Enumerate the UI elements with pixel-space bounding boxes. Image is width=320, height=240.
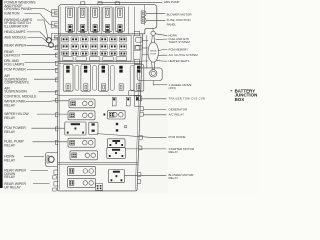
wire leader WIPER HI/LOW RELAY bbox=[37, 113, 68, 115]
svg-text:DEFROST: DEFROST bbox=[4, 53, 21, 57]
wire leader PARKING LAMPS bbox=[37, 20, 48, 38]
left edge tab 1 bbox=[55, 45, 58, 49]
left edge tab 4 bbox=[55, 68, 58, 72]
wire leader 4 WHEEL DRIVE bbox=[153, 84, 167, 86]
mini fuse row 2 #7 bbox=[119, 44, 126, 49]
mini fuse row 2 #6 bbox=[110, 44, 117, 49]
chain top terminal circle bbox=[151, 31, 155, 35]
svg-text:FUSE: FUSE bbox=[150, 53, 156, 55]
svg-text:PCM MEMORY: PCM MEMORY bbox=[169, 47, 189, 51]
label FUEL PUMP RELAY bbox=[4, 140, 24, 148]
mini fuse row 4 #4 bbox=[103, 57, 114, 61]
svg-text:BLOWER MOTOR: BLOWER MOTOR bbox=[167, 12, 193, 16]
svg-text:THEFT SYSTEM: THEFT SYSTEM bbox=[169, 40, 191, 44]
wire leader STARTER MOTOR RELAY bbox=[125, 148, 166, 150]
label WIPER PARK RELAY bbox=[4, 100, 26, 108]
stem band to chain circle bbox=[152, 28, 154, 31]
svg-text:PANEL: PANEL bbox=[167, 22, 177, 26]
small grid part bottom center bbox=[95, 184, 102, 191]
wire leader GENERATOR bbox=[144, 109, 167, 111]
small relay center column bbox=[89, 122, 98, 134]
label 4 WHEEL DRIVE bbox=[169, 83, 192, 90]
top band divider lines bbox=[127, 7, 129, 34]
left edge E-connector 3 bbox=[52, 34, 58, 40]
mini fuse row 1 #5 bbox=[100, 37, 107, 42]
connector tab to fuse junction panel bbox=[141, 18, 146, 24]
relay wiper hi/low bbox=[68, 111, 95, 120]
relay starter aux upper bbox=[108, 139, 126, 148]
label PCM POWER RELAY bbox=[4, 126, 26, 134]
label HEADLAMPS bbox=[4, 30, 26, 34]
wire leader PCM MEMORY bbox=[158, 50, 167, 51]
left edge tab 8 bbox=[55, 113, 58, 117]
mini fuse row 2 #1 bbox=[62, 44, 69, 49]
mini fuse row 4 #5 bbox=[116, 57, 127, 61]
svg-text:SUSPENSION: SUSPENSION bbox=[4, 90, 27, 94]
relay rear wiper down bbox=[68, 166, 96, 175]
svg-text:HEADLAMPS: HEADLAMPS bbox=[4, 30, 26, 34]
maxi fuse mid row M1 bbox=[63, 65, 73, 92]
left edge tab 3 bbox=[55, 61, 58, 65]
mini fuse row 3 #7 bbox=[119, 51, 126, 55]
svg-text:TRAILER TOW CVS CVR: TRAILER TOW CVS CVR bbox=[169, 97, 206, 101]
label BLOWER MOTOR RELAY bbox=[169, 173, 195, 180]
svg-text:GENERATOR: GENERATOR bbox=[169, 107, 189, 111]
relay starter aux bbox=[107, 148, 126, 159]
wire leader A/C CLUTCH SYSTEM bbox=[158, 54, 168, 56]
left connector ring C2 bbox=[49, 43, 54, 48]
wire leader FUSE JUNCTION PANEL bbox=[147, 19, 166, 21]
wire stud down bbox=[152, 81, 154, 86]
slot divider bbox=[88, 7, 90, 34]
mini fuse row 1 #2 bbox=[71, 37, 78, 42]
maxi fuse top row F3 bbox=[90, 7, 99, 33]
wire leader PCM POWER bbox=[27, 69, 58, 71]
svg-text:ABS MODULE: ABS MODULE bbox=[4, 36, 27, 40]
left edge tab 5 bbox=[55, 78, 58, 82]
scattered pins right bbox=[116, 123, 118, 125]
dark pin marks aux1 bbox=[104, 114, 106, 116]
relay horn bbox=[70, 151, 98, 160]
svg-text:PCM POWER: PCM POWER bbox=[4, 68, 26, 72]
left connector ring C1 bbox=[46, 38, 51, 43]
wire leader FUEL AND ANTI THEFT bbox=[156, 38, 168, 41]
mini fuse row 1 #3 bbox=[81, 37, 88, 42]
left edge tab 2 bbox=[55, 53, 58, 57]
relay wiper park bbox=[69, 99, 95, 108]
label AIR SUSPENSION CONTROL MODULE bbox=[4, 86, 27, 93]
maxi fuse mid row M2 bbox=[81, 65, 91, 92]
wire leader FUEL PUMP RELAY bbox=[33, 141, 68, 143]
svg-text:RELAY: RELAY bbox=[4, 175, 16, 179]
left edge tab 10 bbox=[55, 141, 58, 145]
maxi fuse top row F4 bbox=[103, 7, 112, 33]
label CONTROL MODULE bbox=[4, 95, 37, 99]
relay rear wiper up bbox=[68, 178, 96, 187]
svg-text:BOX: BOX bbox=[235, 97, 245, 102]
wire leader REAR DEFROST bbox=[22, 53, 58, 55]
mini fuse row 1 #6 bbox=[110, 37, 117, 42]
notch inner vertical line bbox=[144, 5, 146, 25]
battery stud outer bbox=[150, 70, 157, 77]
wire leader PCM POWER RELAY bbox=[32, 127, 65, 129]
svg-text:IGNITION: IGNITION bbox=[4, 12, 20, 16]
wire leader ABS PUMP bbox=[98, 1, 162, 3]
wire leader DRL AND FOG LAMPS bbox=[25, 62, 58, 64]
label WIPER HI/LOW RELAY bbox=[4, 112, 29, 120]
mini fuse row 4 #2 bbox=[76, 57, 87, 61]
wire leader REAR WIPER DOWN RELAY bbox=[31, 170, 49, 172]
svg-text:ILLUMINATION: ILLUMINATION bbox=[4, 24, 28, 28]
right edge connectors mid bbox=[129, 91, 135, 96]
maxi fuse mid row M5 bbox=[134, 65, 144, 92]
svg-text:HEATED SEATS: HEATED SEATS bbox=[169, 59, 190, 63]
wire leader AIR SUSPENSION COMPONENTS bbox=[34, 78, 58, 80]
label STARTER MOTOR RELAY bbox=[169, 147, 196, 154]
label REAR WIPER bbox=[4, 43, 26, 47]
mini fuse row 3 #3 bbox=[81, 51, 88, 55]
top edge tab 3 bbox=[115, 2, 119, 5]
left edge tab 6 bbox=[55, 91, 58, 95]
label FUSE JUNCTION PANEL bbox=[167, 18, 191, 26]
right interior connector rects bbox=[134, 31, 139, 35]
svg-text:UP RELAY: UP RELAY bbox=[4, 185, 21, 189]
scan edge black strip bbox=[0, 0, 3, 188]
mini fuse row 3 #1 bbox=[62, 51, 69, 55]
wire leader REAR WIPER UP RELAY bbox=[33, 183, 50, 185]
svg-text:RELAY: RELAY bbox=[4, 144, 16, 148]
narrow strip between mid fuses bbox=[93, 66, 97, 91]
wire leader HORN bbox=[155, 34, 167, 36]
wire leader ABS MODULE bbox=[28, 38, 50, 45]
wire leader BLOWER MOTOR RELAY bbox=[125, 174, 167, 176]
label BATTERY JUNCTION BOX (title) bbox=[235, 88, 258, 102]
wire leader POWER WINDOWS bbox=[31, 9, 58, 14]
lighter right margin bbox=[168, 0, 259, 194]
label PARKING LAMPS I/P AND SWITCH ILLUMINATION bbox=[4, 18, 33, 29]
svg-text:FOG LAMPS: FOG LAMPS bbox=[4, 62, 25, 66]
mini fuse row 4 #3 bbox=[89, 57, 100, 61]
svg-text:REAR WIPER: REAR WIPER bbox=[4, 43, 26, 47]
wire leader IGNITION bbox=[25, 14, 58, 26]
relay fuel pump bbox=[68, 138, 95, 147]
maxi fuse mid row M3 bbox=[99, 65, 109, 92]
svg-text:RELAY: RELAY bbox=[4, 116, 16, 120]
wire leader HEADLAMPS bbox=[27, 32, 48, 40]
svg-text:A/C CLUTCH SYSTEM: A/C CLUTCH SYSTEM bbox=[169, 53, 199, 57]
label FUEL AND ANTI THEFT SYSTEM bbox=[169, 37, 191, 44]
svg-text:PCM DIODE: PCM DIODE bbox=[169, 135, 186, 139]
connector tab to blower motor bbox=[141, 11, 146, 17]
connector bracket at rings bbox=[54, 37, 58, 49]
bottom left connector block bbox=[46, 153, 58, 167]
narrow strip between mid fuses bbox=[75, 66, 79, 91]
maxi fuse top row F2 bbox=[78, 7, 87, 33]
left edge E-connector 1 bbox=[52, 10, 58, 16]
mini fuse row 2 #2 bbox=[71, 44, 78, 49]
slot divider bbox=[75, 7, 77, 34]
narrow strip between mid fuses bbox=[110, 66, 114, 91]
svg-text:RELAY: RELAY bbox=[4, 103, 16, 107]
wire leader HEATED SEATS bbox=[156, 59, 167, 62]
label POWER WINDOWS AND ROOF OPENING PANEL bbox=[4, 1, 36, 12]
svg-text:RELAY: RELAY bbox=[169, 150, 179, 154]
maxi fuse top row F1 bbox=[65, 7, 74, 33]
svg-text:CONTROL MODULE: CONTROL MODULE bbox=[4, 95, 37, 99]
svg-text:ABS PUMP: ABS PUMP bbox=[164, 0, 180, 4]
maxi fuse mid row M4 bbox=[119, 66, 123, 91]
relay blower aux bbox=[109, 170, 125, 183]
left edge tab 9 bbox=[55, 127, 58, 131]
wire leader AIR SUSPENSION CONTROL MODULE bbox=[39, 91, 58, 93]
wire leader WIPER PARK RELAY bbox=[26, 100, 69, 103]
small parts right of wiper park relay bbox=[112, 97, 116, 106]
mini fuse row 2 #4 bbox=[90, 44, 97, 49]
wire mega fuse to terminal block bbox=[151, 62, 154, 70]
mini fuse row 3 #5 bbox=[100, 51, 107, 55]
label REAR DEFROST bbox=[4, 50, 21, 57]
mini fuse row 1 #1 bbox=[62, 37, 69, 42]
mini fuse row 4 #1 bbox=[63, 57, 74, 61]
dash before title bbox=[231, 90, 233, 91]
svg-text:RELAY: RELAY bbox=[4, 158, 16, 162]
label REAR WIPER DOWN RELAY bbox=[4, 168, 26, 179]
small fuse right column 2 bbox=[136, 45, 142, 50]
wire stubs box to chain bbox=[143, 40, 149, 42]
mini fuse row 2 #5 bbox=[100, 44, 107, 49]
label PCM POWER bbox=[4, 68, 26, 72]
slot divider bbox=[113, 7, 115, 34]
label IGNITION SWITCH bbox=[4, 12, 20, 16]
vertical wire along chain bbox=[146, 35, 148, 68]
bottom left small tab 4 bbox=[53, 188, 57, 191]
wire leader REAR WIPER bbox=[27, 46, 58, 47]
bottom left small tabs bbox=[54, 170, 58, 174]
relay aux 1 bbox=[108, 110, 126, 119]
panel right column dividers bbox=[133, 35, 135, 61]
svg-text:MEGA: MEGA bbox=[150, 49, 157, 52]
top edge tab 1 bbox=[81, 2, 85, 5]
left edge E-connector 2 bbox=[52, 22, 58, 28]
divider double line lower bbox=[58, 162, 138, 164]
mega fuse oval bbox=[148, 42, 158, 62]
battery terminal block bbox=[137, 68, 162, 81]
top edge tab 2 bbox=[98, 2, 102, 5]
narrow strip between mid fuses bbox=[130, 66, 134, 91]
wire circle to mega fuse bbox=[151, 36, 154, 43]
mini fuse row 3 #6 bbox=[110, 51, 117, 55]
label HORN RELAY bbox=[4, 155, 16, 163]
wire leader BLOWER MOTOR bbox=[147, 13, 166, 15]
wire leader HORN RELAY bbox=[24, 156, 44, 158]
divider under mini panel bbox=[58, 61, 142, 63]
wire leader A/C RELAY bbox=[143, 114, 166, 116]
mini fuse row 3 #4 bbox=[90, 51, 97, 55]
slot divider bbox=[100, 7, 102, 34]
svg-text:RELAY: RELAY bbox=[4, 130, 16, 134]
mini fuse panel border bbox=[60, 35, 132, 61]
maxi fuse top row F5 bbox=[115, 7, 124, 33]
left edge tab 7 bbox=[55, 98, 58, 102]
label ABS MODULE bbox=[4, 36, 27, 40]
battery junction box outer (top wide band with notch) bbox=[58, 5, 157, 34]
mini fuse row 2 #3 bbox=[81, 44, 88, 49]
wire leader TRAILER TOW bbox=[140, 98, 166, 100]
right edge tab lower 2 bbox=[137, 180, 140, 184]
box inner edge line right bbox=[135, 35, 141, 190]
battery junction box main body bbox=[57, 34, 143, 191]
label REAR WIPER UP RELAY bbox=[4, 182, 26, 190]
mini fuse row 1 #4 bbox=[90, 37, 97, 42]
label AIR SUSPENSION COMPONENTS bbox=[4, 74, 29, 85]
mini fuse row 3 #2 bbox=[71, 51, 78, 55]
small fuse right column 1 bbox=[136, 38, 142, 43]
svg-text:RELAY: RELAY bbox=[169, 176, 179, 180]
svg-text:A/C RELAY: A/C RELAY bbox=[169, 113, 184, 117]
label DRL AND FOG LAMPS bbox=[4, 59, 25, 66]
relay pcm power relay block bbox=[65, 122, 86, 135]
bottom left small tab 3 bbox=[53, 176, 57, 179]
svg-text:(4X4): (4X4) bbox=[169, 86, 176, 90]
wire leader PCM DIODE bbox=[97, 134, 167, 138]
divider under mid fuse row bbox=[58, 94, 140, 96]
battery stud inner bbox=[151, 71, 155, 75]
svg-text:COMPONENTS: COMPONENTS bbox=[4, 81, 29, 85]
mini fuse row 1 #7 bbox=[119, 37, 126, 42]
box inner edge line left bbox=[58, 7, 61, 190]
